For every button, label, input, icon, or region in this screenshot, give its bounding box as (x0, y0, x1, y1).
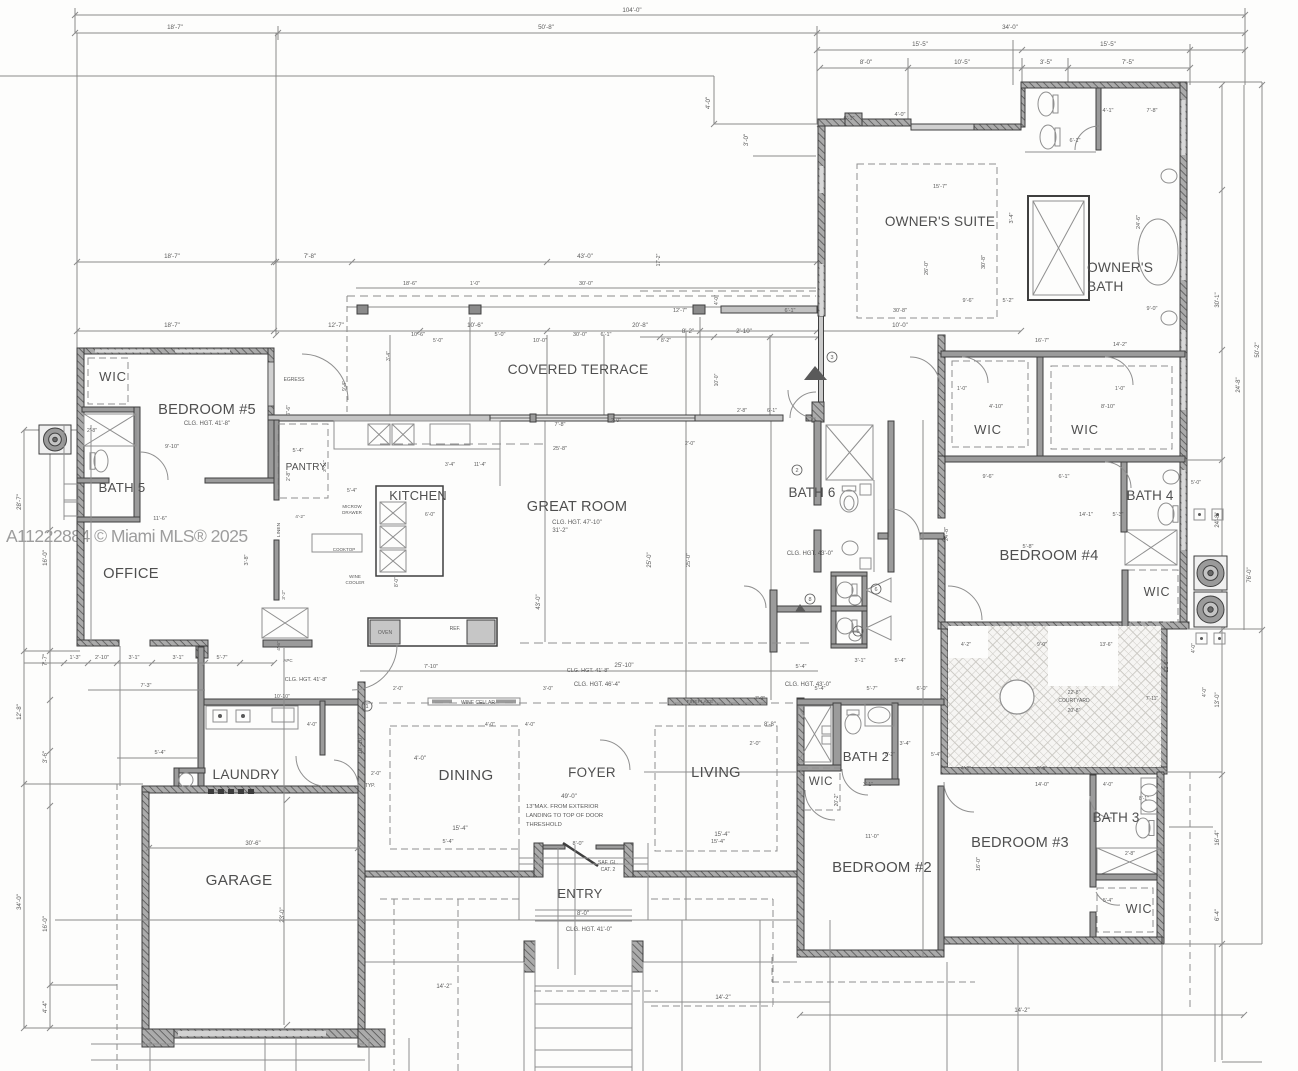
wall: wic5 south (82, 407, 140, 412)
svg-text:BEDROOM #3: BEDROOM #3 (971, 835, 1069, 851)
wall: bedroom5 south a (77, 478, 109, 483)
fixture: apc closet (262, 608, 308, 638)
svg-text:11'-4": 11'-4" (474, 462, 487, 468)
wire: porch edge e (643, 961, 797, 963)
svg-text:15'-7": 15'-7" (933, 184, 947, 190)
svg-text:2'-0": 2'-0" (685, 441, 695, 447)
courtyard paving (948, 626, 1161, 767)
svg-text:CLG. HGT. 41'-8": CLG. HGT. 41'-8" (285, 677, 327, 683)
wire: ext x908 (907, 58, 909, 125)
svg-text:4'-2": 4'-2" (961, 642, 971, 648)
svg-text:WINE CELLAR: WINE CELLAR (461, 700, 495, 706)
svg-text:3'-1": 3'-1" (855, 658, 866, 664)
svg-text:10'-10": 10'-10" (358, 736, 364, 755)
wall: laundry west (198, 647, 204, 786)
wire: driveway v150 (149, 1038, 151, 1071)
wall: bedroom5 east lower (268, 420, 274, 478)
svg-text:9'-6": 9'-6" (963, 298, 974, 304)
door marker triangle terrace (804, 366, 827, 380)
door arc: wic a door (962, 357, 988, 383)
svg-text:9'-6": 9'-6" (983, 474, 994, 480)
svg-text:20'-8": 20'-8" (632, 322, 648, 329)
wall: garage north band (142, 786, 365, 793)
svg-text:12'-8": 12'-8" (1164, 659, 1170, 672)
wall: small baths top (831, 572, 867, 576)
svg-text:14'-1": 14'-1" (1079, 512, 1093, 518)
svg-text:4'-0": 4'-0" (895, 112, 906, 118)
svg-text:5'-4": 5'-4" (931, 752, 941, 758)
wire: dim row y460 right (1187, 459, 1222, 461)
svg-text:4'-0": 4'-0" (705, 97, 712, 109)
svg-text:104'-0": 104'-0" (622, 7, 641, 14)
laundry counter (206, 706, 298, 729)
svg-text:3'-4": 3'-4" (445, 462, 455, 468)
wall: laundry north (204, 699, 360, 705)
svg-text:30'-8": 30'-8" (981, 255, 987, 269)
svg-text:10'-0": 10'-0" (533, 338, 547, 344)
svg-text:5'-0": 5'-0" (1191, 480, 1201, 486)
svg-text:8'-1": 8'-1" (1139, 796, 1149, 802)
wall: bath3 west wall b (1090, 912, 1096, 937)
porch stair pillars (524, 941, 535, 972)
svg-text:BATH 2: BATH 2 (843, 749, 889, 764)
svg-text:8'-0": 8'-0" (860, 59, 872, 66)
wall: bath2 partition (833, 703, 841, 765)
svg-text:13"MAX. FROM EXTERIOR: 13"MAX. FROM EXTERIOR (526, 804, 599, 810)
oven-ref counter (368, 618, 497, 646)
svg-text:CLG. HGT. 41'-0": CLG. HGT. 41'-0" (566, 927, 612, 933)
svg-text:9'-0": 9'-0" (1037, 642, 1047, 648)
svg-text:10'-5": 10'-5" (954, 59, 970, 66)
svg-text:WIC: WIC (1144, 585, 1171, 599)
wire: ext x278 (277, 26, 279, 40)
svg-text:4'-0": 4'-0" (485, 722, 495, 728)
wall: bath2 south e (865, 779, 899, 785)
wall: owner bath top (1021, 82, 1185, 88)
wire: dim row y663 (24, 662, 274, 664)
dashed ceiling: wic5 (88, 358, 128, 404)
svg-text:23'-0": 23'-0" (280, 907, 286, 922)
wall: wic row top (941, 351, 1185, 357)
svg-text:25'-10": 25'-10" (614, 662, 633, 669)
svg-text:15'-4": 15'-4" (714, 832, 729, 838)
svg-text:8'-10": 8'-10" (1101, 404, 1115, 410)
wire: ext x817 a (816, 26, 818, 124)
fixture: toilet bath6 (840, 486, 858, 512)
svg-text:7'-11": 7'-11" (1146, 696, 1159, 702)
svg-text:49'-0": 49'-0" (561, 793, 577, 800)
wall: owner suite west corner (812, 402, 824, 422)
fixture: toilet owner1 (1038, 92, 1058, 116)
wire: driveway v369 (368, 1038, 370, 1071)
fixture: kitchen sink b (392, 424, 414, 445)
svg-text:76'-0": 76'-0" (1247, 567, 1253, 582)
wall: garage south (142, 1029, 365, 1038)
svg-text:1'-3": 1'-3" (70, 655, 81, 661)
laundry threshold stripe (208, 789, 254, 794)
svg-text:2'-8": 2'-8" (87, 428, 97, 434)
fixture: bath4 closet (1125, 530, 1177, 565)
wall: bedroom4 west a (938, 456, 945, 518)
island (376, 486, 443, 576)
svg-text:MICROW: MICROW (342, 504, 362, 509)
svg-text:6'-1": 6'-1" (1070, 138, 1081, 144)
wire: br corner h1062 (1222, 1061, 1262, 1063)
wire: kitchen v500 (499, 421, 501, 486)
fixture: sink sb1 (849, 595, 861, 605)
door arc: owner bath entry (910, 357, 940, 387)
svg-text:34'-0": 34'-0" (16, 894, 23, 910)
door arc: small bath1 door (744, 586, 766, 608)
svg-text:20'-8": 20'-8" (1068, 708, 1081, 714)
wall: bath2 top (797, 699, 944, 705)
wire: porch step 4 (535, 1003, 632, 1005)
wire: terr v604 (603, 335, 605, 415)
fixture: closet bath5 (84, 414, 136, 446)
wall: owner suite top (818, 119, 911, 126)
svg-text:26'-0": 26'-0" (924, 261, 930, 275)
svg-text:4'-0": 4'-0" (1202, 687, 1208, 697)
fixture: toilet bath3 (1136, 818, 1154, 838)
wall: bath2 east (892, 703, 898, 783)
wall: hall south e (920, 533, 944, 539)
svg-text:6'-1": 6'-1" (601, 332, 612, 338)
svg-text:14'-0": 14'-0" (1035, 782, 1049, 788)
wire: porch edge w (365, 961, 524, 963)
wall: post x533 (530, 414, 536, 422)
svg-text:28'-7": 28'-7" (16, 494, 23, 510)
wire: entry step a (519, 857, 648, 859)
svg-text:4'-0": 4'-0" (525, 722, 535, 728)
door arc: bedroom5 entry (302, 354, 348, 400)
svg-text:5'-4": 5'-4" (895, 658, 906, 664)
svg-text:50'-2": 50'-2" (1255, 342, 1261, 357)
fixture: island box3 (380, 550, 406, 572)
svg-text:COOLER: COOLER (345, 580, 365, 585)
svg-text:7'-3": 7'-3" (141, 683, 152, 689)
dashed ceiling: living (655, 726, 777, 851)
svg-text:3'-1": 3'-1" (863, 782, 873, 788)
wire: porch step 0 (535, 909, 632, 911)
wall: bedroom2-3 divider (938, 786, 944, 957)
tag 3 (827, 352, 837, 362)
svg-text:REF.: REF. (450, 626, 461, 632)
wire: dim row y944 right (1164, 943, 1262, 945)
svg-text:OVEN: OVEN (378, 630, 393, 636)
svg-text:30'-0": 30'-0" (579, 281, 593, 287)
dashed ceiling: wic bed4 (1128, 570, 1178, 622)
wall: wic row bottom (941, 456, 1185, 462)
wall: kitchen-terrace south window band (268, 415, 490, 421)
wire: terrace step ext (713, 76, 715, 124)
wire: driveway line1 (91, 1043, 365, 1045)
wall: entry side wall e (596, 845, 624, 849)
fixture: toilet sb1 (837, 582, 857, 598)
door arc: owner toilet door (1075, 126, 1099, 150)
wire: terrace inner dim (753, 155, 816, 157)
terrace column 1 (357, 305, 368, 314)
svg-text:3'-8": 3'-8" (244, 554, 250, 565)
svg-text:16'-0": 16'-0" (976, 857, 982, 871)
svg-text:5: 5 (856, 629, 859, 635)
svg-text:15'-4": 15'-4" (452, 826, 467, 832)
svg-text:14'-2": 14'-2" (1014, 1008, 1029, 1014)
wire: terrace top dim (714, 123, 820, 125)
wall: office south a (77, 640, 119, 646)
wall: laundry east partition (320, 701, 325, 755)
svg-text:OWNER'S SUITE: OWNER'S SUITE (885, 214, 995, 229)
svg-text:11'-0": 11'-0" (865, 834, 879, 840)
svg-text:DRAWER: DRAWER (342, 510, 363, 515)
AC unit: right 1 (1194, 556, 1227, 590)
svg-text:6'-0": 6'-0" (917, 686, 928, 692)
svg-text:10'-10": 10'-10" (274, 694, 290, 700)
wire: dim row y629 right (1187, 628, 1262, 630)
door arc: owner suite entry (790, 392, 816, 418)
wire: long line y772 (644, 771, 797, 773)
wire: entry inner e (647, 843, 649, 920)
svg-text:4'-4": 4'-4" (42, 1001, 49, 1013)
wire: dim row y772 right (1164, 771, 1222, 773)
wall: bedroom4 south (941, 622, 1189, 629)
wire: porch step 3 (535, 985, 632, 987)
svg-text:16'-7": 16'-7" (1035, 338, 1049, 344)
door arc: bath3 door (1090, 796, 1112, 818)
svg-text:13'-6": 13'-6" (1100, 642, 1113, 648)
svg-text:SAF. GL.: SAF. GL. (598, 860, 618, 866)
wall: toilet room east (1096, 88, 1101, 150)
wire: patio dash right top (651, 898, 773, 900)
wall: owner bath step (1021, 82, 1025, 127)
svg-text:9'-0": 9'-0" (1147, 306, 1158, 312)
wire: patio dash right bot (651, 1005, 773, 1007)
wall: bath6 east (888, 421, 894, 572)
wall: hall wall y608 (777, 606, 821, 612)
wire: terr v470 (469, 317, 471, 415)
wall: courtyard south (941, 767, 1167, 774)
wall: kitchen-terrace slider (490, 415, 695, 421)
svg-text:4'-0": 4'-0" (414, 756, 426, 762)
fixture: bath4 sink (1163, 470, 1179, 484)
wall: laundry bump north (174, 768, 205, 773)
wall: bath5 east (134, 407, 140, 522)
svg-text:CLG. HGT. 46'-4": CLG. HGT. 46'-4" (574, 682, 620, 688)
fixture: toilet sb2 (837, 618, 857, 634)
wall: garage west (142, 792, 149, 1038)
dashed ceiling: dining (390, 726, 519, 849)
wall: bedroom2 west (797, 698, 804, 957)
wire: ext x1068 (1067, 58, 1069, 85)
svg-text:4'-1": 4'-1" (1103, 108, 1114, 114)
svg-text:ENTRY: ENTRY (557, 886, 602, 901)
small bath door triangles (866, 578, 891, 602)
wall: entry pillar east (624, 843, 633, 877)
wire: ext x75 (74, 8, 76, 33)
wire: left inner v64 (63, 425, 65, 520)
wall: post x611 (608, 414, 614, 422)
wire: dim y1002 right (644, 1001, 830, 1003)
wire: dim row y690 left (88, 689, 205, 691)
svg-text:5'-7": 5'-7" (217, 655, 228, 661)
wall: garage east (358, 682, 365, 1038)
svg-text:4'-6": 4'-6" (276, 641, 282, 651)
svg-text:6'-1": 6'-1" (844, 116, 855, 122)
svg-text:TYP.: TYP. (365, 783, 375, 789)
wall: wic4 west (1122, 570, 1128, 627)
wire: driveway v409 (408, 1038, 410, 1071)
svg-text:WIC: WIC (1126, 902, 1153, 916)
dashed ceiling: pantry box (278, 424, 328, 498)
fixture: owner sink2 (1161, 311, 1177, 325)
svg-text:12'-8": 12'-8" (16, 704, 23, 720)
svg-text:22'-8": 22'-8" (1068, 690, 1081, 696)
svg-text:2'-0": 2'-0" (611, 418, 621, 424)
wire: ext x547 short (546, 335, 548, 415)
svg-text:OFFICE: OFFICE (103, 566, 159, 582)
svg-text:9'-4": 9'-4" (342, 381, 348, 391)
wall: owner suite top b (974, 124, 1021, 130)
wire: ext x77 long (76, 33, 78, 348)
wall: bedroom4 west b (938, 537, 945, 629)
wall: front wall east wing (629, 871, 797, 877)
door arc: terrace door (788, 390, 816, 418)
door arc: bedroom4 door (948, 586, 982, 620)
tag 6 (871, 584, 881, 594)
fixture: sink sb2 (849, 631, 861, 641)
wine cellar band (428, 698, 520, 705)
wire: entry step b (519, 863, 648, 865)
door arc: mud door 2 (334, 760, 358, 786)
svg-text:3'-4": 3'-4" (900, 741, 911, 747)
wire: dim row y288 (356, 287, 816, 289)
svg-text:8'-8": 8'-8" (764, 722, 776, 728)
svg-text:8'-0": 8'-0" (394, 577, 400, 587)
svg-text:CLG. HGT. 41'-8": CLG. HGT. 41'-8" (184, 421, 230, 427)
wall: bath2 south w (797, 765, 841, 771)
dashed ceiling: wic bed2 (801, 768, 840, 810)
wall: pantry west (274, 420, 279, 500)
svg-text:17'-2": 17'-2" (656, 253, 662, 266)
wire: terrace dashed y296 (347, 295, 816, 297)
fixture: bath2 sink (868, 707, 890, 723)
wire: v347 dash (346, 296, 348, 418)
wall: greatroom east a (814, 421, 821, 505)
svg-text:6'-1": 6'-1" (767, 408, 777, 414)
svg-text:16'-0": 16'-0" (42, 916, 49, 932)
svg-text:3'-4": 3'-4" (1009, 212, 1015, 223)
wire: dim row y262 (77, 261, 817, 263)
svg-text:3'-1": 3'-1" (129, 655, 140, 661)
dashed ceiling: wic bed3 box (1097, 888, 1153, 932)
svg-text:3'-5": 3'-5" (1040, 59, 1052, 66)
wall: bedroom2 south (797, 950, 944, 957)
wire: top dim row3 (817, 49, 1245, 51)
svg-text:4'-2": 4'-2" (295, 514, 305, 520)
wire: walk edge 1 (523, 962, 525, 1071)
wire: br v947 (946, 962, 948, 1071)
svg-text:WIC: WIC (809, 776, 833, 788)
svg-text:LINEN: LINEN (276, 522, 282, 537)
svg-text:7'-8": 7'-8" (555, 422, 566, 428)
wire: right dim x1222 (1221, 85, 1223, 1060)
svg-text:7'-7": 7'-7" (42, 654, 49, 666)
wire: greatroom dash south (520, 642, 814, 644)
svg-text:2'-10": 2'-10" (736, 328, 752, 335)
svg-text:12'-7": 12'-7" (328, 322, 344, 329)
svg-text:14'-2": 14'-2" (1113, 342, 1127, 348)
svg-text:2'-0": 2'-0" (371, 771, 381, 777)
svg-text:BEDROOM #2: BEDROOM #2 (832, 860, 932, 876)
svg-text:BATH 3: BATH 3 (1092, 810, 1139, 825)
wire: v117 dash (116, 784, 118, 1071)
svg-text:3'-11": 3'-11" (322, 460, 328, 472)
svg-text:6'-4": 6'-4" (1215, 909, 1221, 921)
svg-text:2'-8": 2'-8" (737, 408, 747, 414)
svg-text:5'-3": 5'-3" (1113, 512, 1124, 518)
fixture: owner shower (1033, 201, 1084, 295)
svg-text:LIVING: LIVING (691, 765, 741, 781)
wire: patio dash bottom (772, 981, 975, 983)
wire: entry centerline b (574, 845, 576, 975)
svg-text:2'-8": 2'-8" (1125, 851, 1135, 857)
svg-text:1'-0": 1'-0" (470, 281, 480, 287)
wall: small baths east (862, 572, 867, 648)
svg-text:18'-7": 18'-7" (167, 24, 183, 31)
svg-text:5'-8": 5'-8" (1023, 544, 1034, 550)
svg-text:9'-10": 9'-10" (165, 444, 179, 450)
svg-text:11'-6": 11'-6" (153, 516, 167, 522)
wall: hall wall x770 (770, 590, 777, 652)
wire: ext x1245 (1244, 8, 1246, 85)
svg-text:7'-10": 7'-10" (424, 664, 438, 670)
svg-text:WINE: WINE (349, 574, 361, 579)
svg-text:5'-4": 5'-4" (293, 448, 304, 454)
svg-text:4'-0": 4'-0" (1191, 643, 1197, 653)
svg-text:7'-8": 7'-8" (304, 253, 316, 260)
svg-text:50'-8": 50'-8" (538, 24, 554, 31)
svg-text:2: 2 (795, 468, 798, 474)
wire: gr v686 (685, 331, 687, 920)
wire: walk edge 4 (642, 962, 644, 1071)
wall: garage sw step (142, 1029, 174, 1047)
svg-text:10'-6": 10'-6" (411, 332, 425, 338)
svg-text:GREAT ROOM: GREAT ROOM (527, 499, 627, 515)
svg-text:7'-6": 7'-6" (286, 405, 292, 415)
svg-text:20'-2": 20'-2" (834, 793, 840, 806)
wall: bedroom5-office wall (205, 478, 274, 483)
wire: terr v770 (769, 335, 771, 415)
door arc: office door (352, 645, 397, 690)
wire: top dim row4 (820, 67, 1190, 69)
wire: terr v700 (699, 317, 701, 415)
wall: small baths mid (831, 606, 867, 611)
svg-text:7'-0": 7'-0" (755, 696, 765, 702)
svg-text:13'-0": 13'-0" (1215, 692, 1221, 707)
wire: right dim x1244 (1243, 85, 1245, 630)
svg-text:6: 6 (874, 587, 877, 593)
wire: porch step 6 (535, 1049, 632, 1051)
svg-text:7'-8": 7'-8" (1147, 108, 1158, 114)
wire: right dim x1262 (1261, 82, 1263, 944)
wire: driveway v265 (264, 1038, 266, 1071)
wire: br v1018 (1017, 944, 1019, 1071)
wall: entry side wall w (543, 845, 565, 849)
wire: hall dim x923 (922, 420, 924, 957)
wall: bedroom3 east (1157, 772, 1164, 944)
fixture: island box1 (380, 502, 406, 524)
cabinet: kitchen top counter (334, 421, 500, 449)
wall: office-laundry step (196, 642, 208, 658)
